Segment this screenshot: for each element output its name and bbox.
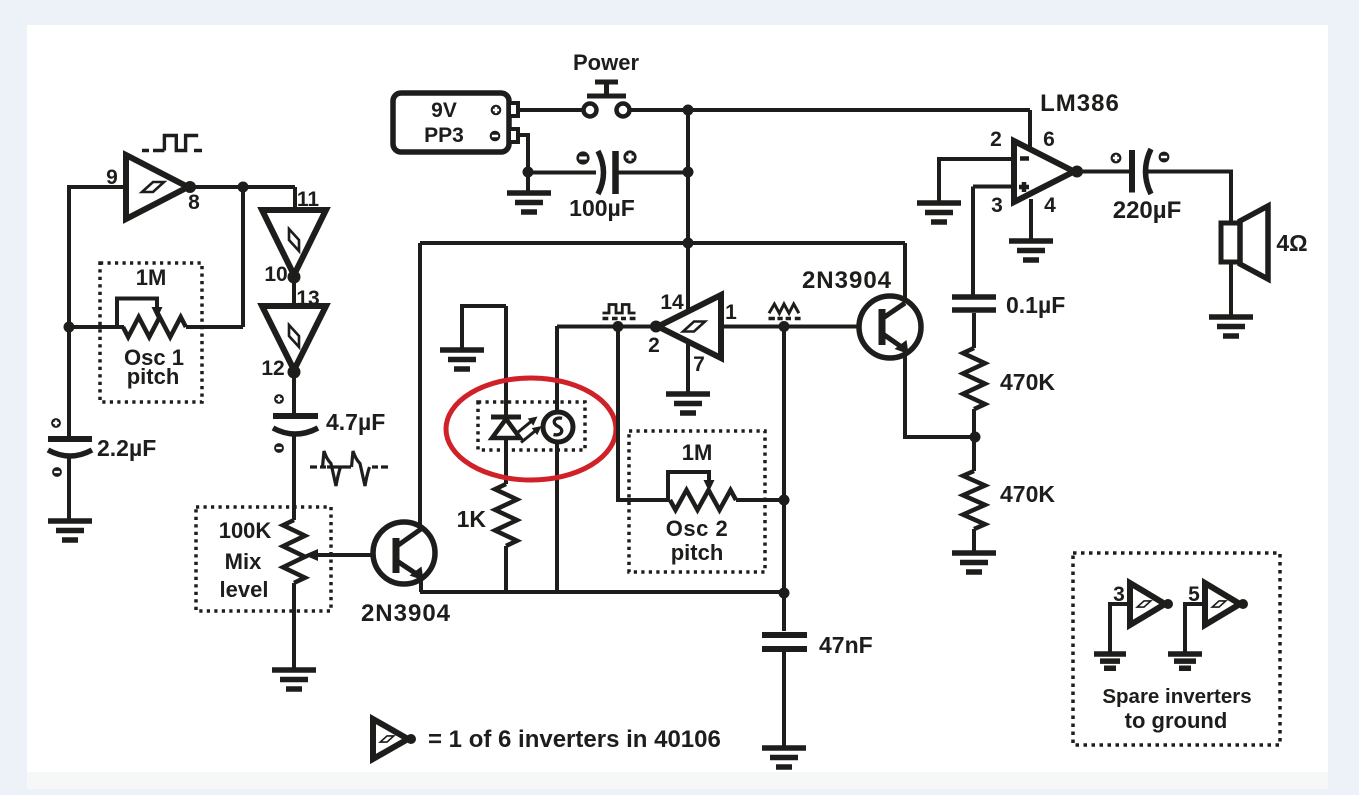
node V+ top — [683, 105, 694, 116]
pin 3 label lm386 — [991, 194, 1003, 217]
LED D1 — [491, 417, 521, 438]
node osc1 feedback — [64, 322, 75, 333]
pin 1 label — [725, 301, 737, 324]
pin 10 label — [264, 263, 287, 286]
pot R1 wiper — [117, 299, 163, 326]
ground U1D — [666, 342, 710, 413]
wire R3 to ground — [292, 583, 296, 668]
svg-text:Mix: Mix — [225, 549, 262, 574]
svg-text:level: level — [220, 577, 269, 602]
ground stub vactrol — [440, 306, 506, 369]
wire pin8 down to pot — [241, 187, 245, 327]
wire V+ vertical — [686, 110, 690, 310]
wire R6 to ground — [972, 529, 976, 551]
node V+ mid — [683, 167, 694, 178]
square wave glyph osc1 — [142, 136, 202, 151]
sawtooth glyph — [769, 304, 801, 319]
label 4 ohm — [1276, 230, 1307, 256]
svg-text:1M: 1M — [136, 265, 167, 290]
svg-text:220µF: 220µF — [1113, 197, 1182, 224]
ground C3 — [762, 748, 806, 767]
wire gnd to C1 — [528, 171, 596, 175]
pin 12 label — [261, 357, 284, 380]
wire pin3 riser — [971, 187, 975, 296]
speaker SP1 — [1221, 206, 1268, 279]
pin 4 label lm386 — [1044, 194, 1056, 217]
svg-text:4Ω: 4Ω — [1276, 230, 1307, 256]
label 100uF — [569, 195, 635, 221]
light arrows — [517, 417, 542, 443]
label LM386 — [1040, 90, 1120, 117]
pushbutton switch S1 — [584, 82, 630, 117]
svg-text:PP3: PP3 — [424, 124, 464, 147]
pot R3 wiper arrow — [304, 549, 393, 561]
spare inverter A — [1130, 583, 1165, 625]
mixed waveform glyph — [310, 451, 388, 486]
label 2.2uF — [97, 435, 156, 461]
svg-text:2N3904: 2N3904 — [361, 600, 451, 627]
ground pin4 — [1009, 241, 1053, 260]
svg-text:100K: 100K — [219, 518, 272, 543]
label 4.7uF — [326, 409, 385, 435]
legend text — [428, 726, 721, 753]
wire C1 to V+ rail — [618, 171, 688, 175]
label 0.1uF — [1006, 292, 1065, 318]
pin 5 label spare — [1188, 583, 1200, 606]
potentiometer R3 100K Mix level — [283, 520, 305, 583]
wire Q2 emitter — [905, 350, 975, 437]
wire speaker to ground — [1229, 262, 1233, 315]
svg-text:pitch: pitch — [671, 540, 724, 565]
inverter U1B pins 11-10 — [262, 210, 326, 275]
svg-text:to ground: to ground — [1125, 708, 1228, 733]
ground speaker — [1209, 317, 1253, 336]
ground battery — [507, 172, 551, 212]
wire Q1 emitter down — [419, 576, 423, 592]
wire pot left — [69, 325, 124, 329]
dashed box Osc 2 pitch — [629, 431, 765, 572]
node spare B out — [1238, 599, 1248, 609]
wire switch to V+ node — [630, 108, 688, 112]
svg-text:1M: 1M — [682, 440, 713, 465]
svg-text:12: 12 — [261, 357, 284, 380]
pin 9 label — [106, 166, 118, 189]
svg-text:2.2µF: 2.2µF — [97, 435, 156, 461]
wire LDR top — [555, 326, 559, 412]
wire LED to 1K — [504, 438, 508, 484]
label Power — [573, 50, 639, 75]
label 1K — [457, 506, 487, 532]
wire Q1 collector up — [418, 243, 422, 529]
inverter U1A pins 9-8 — [126, 155, 188, 219]
svg-text:LM386: LM386 — [1040, 90, 1120, 117]
wire C4 to R5 — [972, 313, 976, 348]
svg-text:14: 14 — [660, 291, 684, 314]
wire node to C3 — [782, 593, 786, 631]
wire battery- down — [518, 135, 528, 172]
label 1M osc1 — [136, 265, 167, 290]
label Mix — [225, 549, 262, 574]
legend inverter symbol — [373, 719, 408, 759]
label 100K — [219, 518, 272, 543]
wire V+ rail top — [688, 108, 1030, 112]
svg-text:3: 3 — [991, 194, 1003, 217]
capacitor C5 220uF — [1111, 149, 1170, 194]
wire C0 to ground — [67, 455, 71, 519]
wire LDR bottom — [555, 442, 559, 592]
pin 8 label — [188, 191, 200, 214]
wire osc1 node to C0 — [67, 327, 71, 437]
wire R5 to node — [972, 409, 976, 471]
svg-text:4.7µF: 4.7µF — [326, 409, 385, 435]
wire C2 to mix pot — [292, 432, 296, 520]
node divider mid — [970, 432, 981, 443]
resistor R6 470K — [963, 471, 985, 529]
wire pot right — [186, 325, 243, 329]
label 47nF — [819, 632, 873, 658]
photocell LDR — [543, 412, 573, 442]
wire osc2 input rail — [782, 327, 786, 594]
dashed box Osc 1 pitch — [100, 263, 202, 402]
wire V+ to pin6 — [1028, 110, 1032, 148]
svg-text:0.1µF: 0.1µF — [1006, 292, 1065, 318]
wire LED top — [504, 306, 508, 417]
svg-text:6: 6 — [1043, 128, 1055, 151]
wire U1D output left — [557, 325, 658, 329]
wire feedback down — [618, 327, 670, 501]
svg-text:= 1 of 6 inverters in 40106: = 1 of 6 inverters in 40106 — [428, 726, 721, 753]
inverter U1C pins 13-12 — [262, 306, 326, 370]
svg-text:2N3904: 2N3904 — [802, 267, 892, 294]
pin 7 label — [693, 353, 705, 376]
svg-text:47nF: 47nF — [819, 632, 873, 658]
svg-text:100µF: 100µF — [569, 195, 635, 221]
wire C5 to speaker — [1148, 172, 1231, 223]
wire U1A output — [190, 185, 295, 189]
wire U1A input left — [69, 187, 126, 327]
node spare A out — [1163, 599, 1173, 609]
ground pin2 — [917, 203, 961, 222]
wire pin2 to ground — [939, 159, 1014, 201]
label Q1 2N3904 — [361, 600, 451, 627]
inverter U1D pins 1-2 — [658, 295, 721, 358]
wire pin4 stem — [1029, 199, 1033, 239]
wire U1D input right — [721, 325, 879, 329]
ground spare A — [1094, 654, 1126, 668]
optocoupler dashed box — [478, 402, 585, 450]
spare inverter B — [1205, 583, 1240, 625]
svg-text:10: 10 — [264, 263, 287, 286]
label to ground — [1125, 708, 1228, 733]
wire pin10 to U1C — [292, 277, 296, 306]
svg-text:4: 4 — [1044, 194, 1056, 217]
wire to U2 input — [293, 187, 297, 210]
node mid rail V+ — [683, 238, 694, 249]
node osc2 feedback — [613, 321, 624, 332]
label Osc 1 — [124, 345, 184, 370]
ground spare B — [1168, 654, 1202, 668]
wire spare B input — [1185, 604, 1205, 652]
ground C0 — [48, 521, 92, 540]
wire bottom rail to node — [784, 590, 786, 594]
node pot2 node — [779, 495, 790, 506]
node output pin 10 — [288, 271, 301, 284]
node output pin 8 — [184, 181, 196, 193]
svg-text:8: 8 — [188, 191, 200, 214]
label 220uF — [1113, 197, 1182, 224]
svg-text:1K: 1K — [457, 506, 487, 532]
dashed box spare inverters — [1073, 553, 1280, 745]
capacitor C4 0.1uF — [952, 297, 996, 310]
svg-text:9V: 9V — [431, 99, 457, 122]
wire pot2 right — [736, 498, 785, 502]
svg-text:2: 2 — [990, 128, 1002, 151]
resistor R5 470K — [963, 348, 985, 409]
red highlight ellipse — [446, 378, 616, 480]
label Spare inverters — [1102, 685, 1251, 708]
label Q2 2N3904 — [802, 267, 892, 294]
capacitor C0 2.2uF — [48, 418, 92, 477]
potentiometer R2 1M osc2 — [670, 490, 736, 510]
label 1M osc2 — [682, 440, 713, 465]
resistor R4 1K — [495, 484, 517, 546]
label Osc 2 — [666, 516, 728, 541]
svg-text:2: 2 — [648, 334, 660, 357]
svg-text:1: 1 — [725, 301, 737, 324]
wire 1K to bottom rail — [504, 546, 508, 592]
svg-text:Spare inverters: Spare inverters — [1102, 685, 1251, 708]
wire Q2 collector — [903, 243, 907, 303]
op-amp U2 LM386 — [1014, 141, 1074, 202]
wire output to C5 — [1077, 170, 1129, 174]
label level — [220, 577, 269, 602]
ground mix pot — [272, 670, 316, 689]
label pitch osc2 — [671, 540, 724, 565]
node battery- junction — [523, 167, 534, 178]
wire C3 to ground — [782, 652, 786, 746]
pin 3 label spare — [1113, 583, 1125, 606]
pin 11 label — [297, 188, 320, 211]
svg-text:Osc 2: Osc 2 — [666, 516, 728, 541]
node pin8 junction — [238, 182, 249, 193]
node 47nF node — [779, 588, 790, 599]
capacitor C1 100uF — [576, 150, 636, 194]
capacitor C2 4.7uF — [273, 394, 318, 453]
label 470K upper — [1000, 369, 1055, 395]
svg-text:470K: 470K — [1000, 481, 1055, 507]
pin 14 label — [660, 291, 684, 314]
potentiometer R1 1M — [123, 317, 186, 337]
wire pin12 to C2 — [292, 372, 296, 414]
dashed box Mix level — [196, 507, 331, 611]
pin 13 label — [296, 287, 319, 310]
svg-text:11: 11 — [297, 188, 320, 211]
pin 2 label lm386 — [990, 128, 1002, 151]
wire spare A input — [1110, 604, 1130, 652]
label 470K lower — [1000, 481, 1055, 507]
wire mid rail — [420, 241, 905, 245]
legend inverter dot — [406, 734, 416, 744]
transistor Q2 2N3904 — [859, 296, 921, 358]
label pitch osc1 — [127, 364, 180, 389]
wire bottom rail — [420, 590, 786, 594]
svg-text:470K: 470K — [1000, 369, 1055, 395]
battery BT1 9V PP3 — [393, 93, 518, 152]
pot R2 wiper — [668, 472, 715, 498]
square wave glyph osc2 — [603, 305, 636, 319]
ground divider — [952, 553, 996, 572]
svg-text:7: 7 — [693, 353, 705, 376]
pin 6 label lm386 — [1043, 128, 1055, 151]
wire battery+ to switch — [518, 108, 583, 112]
pin 2 label — [648, 334, 660, 357]
node osc2 input — [779, 321, 790, 332]
node LM386 output — [1071, 166, 1083, 178]
svg-text:pitch: pitch — [127, 364, 180, 389]
transistor Q1 2N3904 — [373, 522, 435, 584]
node output pin 2 — [650, 321, 662, 333]
wire pin3 — [973, 185, 1014, 189]
node output pin 12 — [288, 366, 301, 379]
capacitor C3 47nF — [762, 635, 807, 649]
svg-text:Power: Power — [573, 50, 639, 75]
